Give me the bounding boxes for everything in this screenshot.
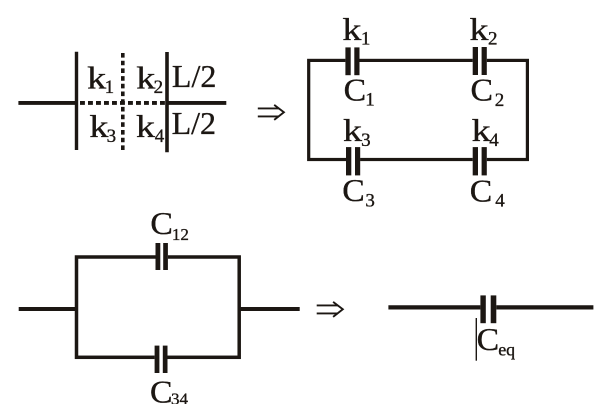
- svg-text:4: 4: [155, 126, 165, 147]
- svg-text:1: 1: [105, 77, 115, 98]
- gap C1: [345, 57, 359, 64]
- svg-text:3: 3: [107, 126, 117, 147]
- wire right of Ceq: [496, 305, 593, 309]
- svg-text:3: 3: [365, 191, 375, 212]
- svg-text:C: C: [477, 321, 500, 357]
- svg-text:3: 3: [361, 130, 371, 151]
- capacitor C4 plates: [473, 147, 478, 175]
- svg-text:k: k: [343, 112, 362, 148]
- right lead: [239, 307, 300, 311]
- arrow 1 (implies): [258, 105, 284, 120]
- svg-text:1: 1: [365, 90, 375, 111]
- dashed divider vertical: [121, 53, 125, 151]
- svg-text:12: 12: [172, 225, 189, 244]
- svg-text:k: k: [89, 108, 108, 144]
- svg-text:k: k: [472, 112, 491, 148]
- capacitor right plate: [165, 52, 169, 152]
- svg-text:4: 4: [495, 191, 505, 212]
- leader line: [475, 318, 477, 361]
- capacitor C3 plates: [346, 147, 351, 175]
- svg-text:34: 34: [171, 389, 189, 404]
- gap C4: [473, 156, 487, 163]
- svg-text:L/2: L/2: [172, 58, 216, 94]
- left lead: [19, 307, 77, 311]
- svg-text:eq: eq: [498, 340, 515, 360]
- capacitor left plate: [75, 52, 78, 150]
- svg-text:k: k: [136, 108, 155, 144]
- gap C34: [155, 353, 167, 361]
- gap C12: [156, 253, 168, 261]
- svg-text:C: C: [150, 205, 173, 241]
- capacitor C12 plates: [156, 243, 161, 270]
- svg-text:2: 2: [154, 77, 164, 98]
- wire dashed middle segment: [80, 101, 166, 105]
- svg-text:C: C: [344, 71, 367, 107]
- svg-text:C: C: [471, 72, 494, 108]
- svg-text:1: 1: [361, 29, 371, 50]
- wire right lead: [166, 101, 227, 105]
- svg-text:C: C: [150, 373, 173, 404]
- arrow 2 (implies): [317, 302, 343, 317]
- svg-text:k: k: [342, 11, 361, 47]
- wire left of Ceq: [388, 305, 480, 309]
- svg-text:k: k: [136, 60, 155, 96]
- wire left lead: [18, 101, 78, 105]
- gap C2: [473, 57, 487, 64]
- capacitor C2 plates: [473, 47, 478, 75]
- gap C3: [346, 156, 360, 163]
- svg-text:L/2: L/2: [172, 105, 216, 141]
- circuit rectangle: [77, 257, 240, 357]
- capacitor Ceq plates: [480, 295, 485, 323]
- capacitor C34 plates: [155, 346, 160, 373]
- circuit rectangle: [309, 60, 528, 159]
- svg-text:2: 2: [488, 29, 498, 50]
- svg-text:C: C: [470, 172, 493, 208]
- svg-text:4: 4: [489, 130, 499, 151]
- svg-text:k: k: [87, 60, 106, 96]
- svg-text:k: k: [470, 11, 489, 47]
- capacitor C1 plates: [345, 47, 350, 75]
- svg-text:2: 2: [495, 90, 505, 111]
- svg-text:C: C: [342, 172, 365, 208]
